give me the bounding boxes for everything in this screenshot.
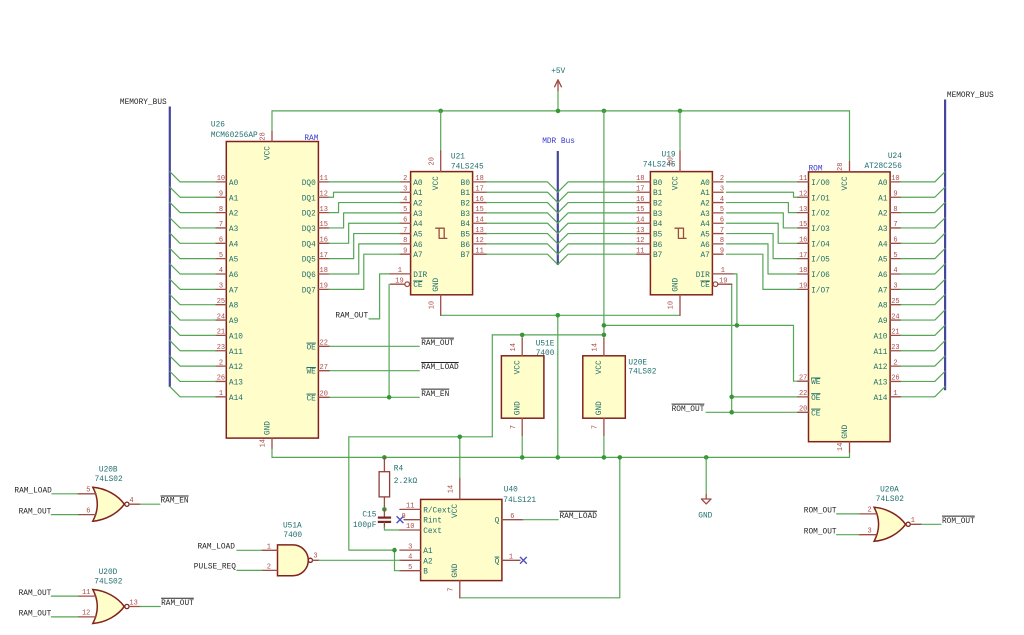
svg-text:17: 17 (636, 185, 644, 193)
svg-text:27: 27 (799, 374, 807, 382)
svg-text:A5: A5 (229, 257, 239, 265)
wire mid vertical GND link (557, 315, 559, 457)
net label RAM_LOAD (active low, U40 Q) (560, 510, 597, 512)
svg-text:21: 21 (891, 329, 899, 337)
svg-text:6: 6 (403, 216, 407, 224)
svg-text:16: 16 (636, 196, 644, 204)
wire bus entry A6 right (901, 264, 945, 274)
net label RAM_OUT (active low, U20D output) (161, 597, 194, 599)
svg-text:15: 15 (636, 206, 644, 214)
svg-text:DQ7: DQ7 (302, 287, 316, 295)
net label RAM_EN (active low, U20B output) (161, 495, 189, 497)
svg-text:13: 13 (320, 206, 328, 214)
svg-text:16: 16 (320, 237, 328, 245)
svg-text:23: 23 (217, 344, 225, 352)
wire bus entry A9 right (901, 310, 945, 320)
svg-text:VCC: VCC (515, 360, 523, 374)
wire VCC line lower (349, 436, 493, 438)
IC U24 AT28C256 (ROM) (798, 153, 902, 452)
wire U19 VCC to rail (679, 111, 681, 151)
wire RAM_OUT to U21 DIR (369, 274, 390, 319)
svg-text:14: 14 (636, 216, 644, 224)
wire U40 VCC drop (459, 437, 461, 479)
svg-text:A11: A11 (873, 349, 887, 357)
svg-text:1: 1 (721, 267, 725, 275)
svg-text:13: 13 (475, 227, 483, 235)
svg-text:RAM_OUT: RAM_OUT (19, 590, 52, 598)
wire bus entry A14 right (901, 387, 945, 397)
svg-text:12: 12 (636, 237, 644, 245)
gate U20B 74LS02 NOR (78, 467, 140, 522)
svg-text:VCC: VCC (452, 504, 460, 518)
svg-text:1: 1 (398, 267, 402, 275)
svg-text:13: 13 (799, 206, 807, 214)
wire U26 GND down (271, 448, 273, 457)
wire bus entry A5 right (901, 248, 945, 258)
svg-text:A2: A2 (878, 211, 888, 219)
wire bus entry A12 right (901, 356, 945, 366)
svg-text:A4: A4 (700, 221, 710, 229)
svg-text:DQ3: DQ3 (302, 226, 316, 234)
svg-text:ROM_OUT: ROM_OUT (804, 528, 837, 536)
svg-text:12: 12 (475, 237, 483, 245)
svg-text:A1: A1 (413, 190, 423, 198)
wire U26 WE to RAM_LOAD label (329, 370, 419, 372)
svg-text:14: 14 (260, 439, 268, 447)
svg-text:VCC: VCC (433, 176, 441, 190)
svg-text:20: 20 (320, 391, 328, 399)
svg-text:GND: GND (264, 421, 272, 435)
wire bus entry A0 left (170, 172, 216, 182)
wire bus entry A1 right (901, 187, 945, 197)
wire U19 A4 to U24 I/O4 (726, 223, 798, 243)
wire U21 CE to RAM_EN (388, 284, 390, 397)
svg-text:I/O1: I/O1 (811, 195, 830, 203)
svg-text:4: 4 (408, 554, 412, 562)
svg-text:14: 14 (475, 216, 483, 224)
svg-text:Q: Q (495, 558, 500, 566)
wire U24 OE branch (732, 396, 798, 398)
wire GND rail (272, 456, 850, 458)
svg-text:7400: 7400 (536, 350, 555, 358)
svg-text:OE: OE (306, 344, 316, 352)
svg-text:7: 7 (510, 425, 518, 429)
svg-text:12: 12 (320, 190, 328, 198)
IC U51E 7400 (power) (501, 339, 554, 436)
svg-text:DQ0: DQ0 (302, 180, 316, 188)
junction RAM_EN / U21 CE riser (387, 395, 392, 400)
wire bus entry A10 right (901, 325, 945, 335)
wire U40 A1 link (395, 550, 400, 571)
svg-text:74LS02: 74LS02 (628, 369, 656, 377)
svg-text:GND: GND (698, 512, 712, 520)
svg-text:DIR: DIR (413, 272, 427, 280)
svg-text:A1: A1 (700, 190, 710, 198)
svg-text:U26: U26 (211, 122, 225, 130)
svg-text:1: 1 (893, 390, 897, 398)
wire U19 B4 to MDR bus (558, 223, 637, 233)
svg-text:B0: B0 (461, 180, 471, 188)
wire +5V rail (272, 110, 850, 112)
IC U20E 74LS02 (power) (583, 339, 657, 436)
svg-text:DQ4: DQ4 (302, 241, 316, 249)
svg-text:11: 11 (82, 589, 90, 597)
wire U21 B3 to MDR bus (487, 213, 558, 223)
wire bus entry A6 left (170, 264, 216, 274)
wire DQ6 to U21 A6 (329, 244, 400, 274)
svg-text:9: 9 (893, 190, 897, 198)
wire U19 B6 to MDR bus (558, 244, 637, 254)
svg-text:A11: A11 (229, 349, 243, 357)
wire bus entry A13 left (170, 371, 216, 381)
svg-text:5: 5 (720, 206, 724, 214)
svg-text:12: 12 (799, 190, 807, 198)
junction ROM_OUT / OE (729, 395, 734, 400)
svg-text:MEMORY_BUS: MEMORY_BUS (947, 92, 994, 100)
ground symbol GND (698, 457, 712, 520)
svg-text:GND: GND (596, 401, 604, 415)
svg-text:RAM_EN: RAM_EN (161, 498, 189, 506)
svg-text:MCM60256AP: MCM60256AP (211, 132, 258, 140)
svg-text:4: 4 (403, 196, 407, 204)
svg-text:DIR: DIR (696, 272, 710, 280)
svg-text:16: 16 (475, 196, 483, 204)
wire U26 OE to RAM_OUT label (329, 345, 419, 347)
wire VCC line left drop to U40 A1 (349, 437, 395, 550)
net label RAM_OUT (active low, U26 OE) (421, 337, 454, 339)
junction VCC line / U51E VCC (520, 333, 525, 338)
junction VCC line / U40 VCC (458, 435, 463, 440)
svg-text:DQ1: DQ1 (302, 195, 316, 203)
svg-text:B6: B6 (461, 242, 471, 250)
gate U20D 74LS02 NOR (78, 569, 140, 624)
wire bus entry A11 right (901, 341, 945, 351)
wire U19 A0 to U24 I/O0 (726, 181, 798, 183)
IC U19 74LS245 (636, 151, 733, 315)
svg-text:2: 2 (893, 359, 897, 367)
svg-text:R/Cext: R/Cext (423, 507, 451, 515)
svg-text:WE: WE (306, 369, 316, 377)
svg-text:A1: A1 (423, 548, 433, 556)
svg-text:8: 8 (219, 206, 223, 214)
svg-text:6: 6 (720, 216, 724, 224)
svg-text:B1: B1 (461, 190, 471, 198)
svg-text:6: 6 (219, 237, 223, 245)
svg-text:A6: A6 (229, 272, 239, 280)
svg-text:B3: B3 (461, 211, 471, 219)
svg-text:18: 18 (799, 267, 807, 275)
wire VCC line upper (492, 334, 604, 336)
svg-text:9: 9 (720, 247, 724, 255)
svg-text:1: 1 (267, 543, 271, 551)
svg-text:RAM_EN: RAM_EN (421, 391, 449, 399)
svg-text:B0: B0 (653, 180, 663, 188)
svg-text:74LS121: 74LS121 (503, 497, 536, 505)
svg-text:17: 17 (799, 252, 807, 260)
wire U19 DIR down (733, 274, 737, 326)
svg-text:U51A: U51A (283, 522, 302, 530)
svg-text:B7: B7 (461, 252, 471, 260)
svg-text:15: 15 (799, 221, 807, 229)
wire U26 VCC to rail (271, 111, 273, 131)
svg-text:13: 13 (129, 599, 137, 607)
svg-text:23: 23 (891, 344, 899, 352)
svg-text:RAM_OUT: RAM_OUT (19, 611, 52, 619)
svg-text:10: 10 (217, 175, 225, 183)
svg-text:19: 19 (395, 277, 403, 285)
svg-text:I/O2: I/O2 (811, 211, 830, 219)
wire U19 B1 to MDR bus (558, 192, 637, 202)
wire bus entry A0 right (901, 172, 945, 182)
svg-text:A12: A12 (873, 364, 887, 372)
svg-text:A14: A14 (873, 395, 887, 403)
gate U20A 74LS02 NOR (859, 487, 921, 542)
net label ROM_OUT (active low, U20A output) (942, 515, 975, 517)
junction U19 DIR / WE wire (735, 323, 740, 328)
svg-text:A4: A4 (878, 241, 888, 249)
svg-text:14: 14 (592, 343, 600, 351)
svg-text:10: 10 (428, 301, 436, 309)
svg-text:74LS02: 74LS02 (95, 476, 123, 484)
wire bus entry A8 right (901, 295, 945, 305)
svg-text:22: 22 (320, 340, 328, 348)
svg-text:4: 4 (720, 196, 724, 204)
svg-text:I/O7: I/O7 (811, 287, 830, 295)
power symbol +5V (551, 68, 565, 111)
svg-text:I/O4: I/O4 (811, 241, 830, 249)
junction GND rail / GND symbol (704, 455, 709, 460)
wire U26 CE to RAM_EN label (329, 396, 419, 398)
svg-text:GND: GND (433, 277, 441, 291)
junction mid vertical / WE wire (602, 323, 607, 328)
wire bus entry A4 left (170, 233, 216, 243)
wire U19 A1 to U24 I/O1 (726, 192, 798, 197)
wire U40 GND return (460, 457, 620, 597)
wire U19 B5 to MDR bus (558, 234, 637, 244)
wire DQ4 to U21 A4 (329, 223, 400, 243)
svg-text:A8: A8 (878, 303, 888, 311)
svg-text:11: 11 (636, 247, 644, 255)
svg-text:5: 5 (219, 252, 223, 260)
svg-text:U20B: U20B (99, 467, 118, 475)
wire VCC line right riser (491, 335, 493, 437)
wire U21 B0 to MDR bus (487, 182, 558, 192)
svg-text:U20D: U20D (99, 569, 118, 577)
svg-text:A4: A4 (413, 221, 423, 229)
wire bus entry A8 left (170, 295, 216, 305)
junction GND rail / U20E GND (602, 455, 607, 460)
svg-text:A1: A1 (229, 195, 239, 203)
svg-text:RAM_LOAD: RAM_LOAD (14, 488, 52, 496)
svg-text:A6: A6 (878, 272, 888, 280)
svg-text:DQ5: DQ5 (302, 257, 316, 265)
svg-text:7: 7 (403, 227, 407, 235)
svg-text:74LS02: 74LS02 (94, 578, 122, 586)
svg-text:WE: WE (811, 379, 821, 387)
svg-text:2: 2 (267, 563, 271, 571)
svg-text:17: 17 (320, 252, 328, 260)
svg-text:U51E: U51E (536, 341, 555, 349)
svg-text:ROM_OUT: ROM_OUT (804, 508, 837, 516)
wire U19 A7 to U24 I/O7 (726, 254, 798, 289)
svg-text:A3: A3 (878, 226, 888, 234)
svg-text:VCC: VCC (596, 360, 604, 374)
net label RAM_EN (active low, U26 CE) (421, 388, 449, 390)
svg-text:B7: B7 (653, 252, 663, 260)
junction VCC line / U20E VCC / +5V vertical (602, 333, 607, 338)
svg-text:11: 11 (475, 247, 483, 255)
wire U19 B2 to MDR bus (558, 203, 637, 213)
wire ROM_OUT to U24 CE (706, 411, 798, 413)
svg-text:B5: B5 (461, 232, 471, 240)
wire U19 A6 to U24 I/O6 (726, 244, 798, 274)
svg-text:DQ2: DQ2 (302, 211, 316, 219)
svg-text:1: 1 (219, 390, 223, 398)
wire U21 VCC to rail (440, 111, 442, 151)
svg-text:RAM_LOAD: RAM_LOAD (198, 544, 236, 552)
svg-text:ROM: ROM (809, 165, 823, 173)
svg-text:7: 7 (720, 227, 724, 235)
svg-text:19: 19 (719, 277, 727, 285)
svg-text:A13: A13 (873, 379, 887, 387)
svg-text:6: 6 (510, 513, 514, 521)
svg-text:A3: A3 (700, 211, 710, 219)
wire mid vertical +5V to VCC line (603, 111, 605, 335)
svg-text:GND: GND (842, 424, 850, 438)
svg-text:Q: Q (495, 518, 500, 526)
wire bus entry A9 left (170, 310, 216, 320)
svg-text:A0: A0 (229, 180, 239, 188)
svg-text:18: 18 (475, 175, 483, 183)
wire U21 B1 to MDR bus (487, 192, 558, 202)
wire bus entry A4 right (901, 233, 945, 243)
svg-text:A4: A4 (229, 241, 239, 249)
wire PULSE_REQ to U51A pin 2 (237, 569, 262, 571)
svg-text:A2: A2 (700, 201, 710, 209)
junction R4 / C15 / R-Cext (382, 507, 387, 512)
wire bus entry A2 left (170, 202, 216, 212)
IC U26 MCM60256AP (RAM) (211, 122, 329, 449)
wire bus entry A13 right (901, 371, 945, 381)
wire bus entry A14 left (170, 387, 216, 397)
svg-text:A2: A2 (229, 211, 239, 219)
svg-text:26: 26 (217, 375, 225, 383)
wire bus entry A3 right (901, 218, 945, 228)
svg-text:MEMORY_BUS: MEMORY_BUS (120, 99, 167, 107)
svg-text:2: 2 (720, 175, 724, 183)
svg-text:GND: GND (452, 563, 460, 577)
svg-text:2: 2 (219, 359, 223, 367)
svg-text:8: 8 (720, 237, 724, 245)
svg-text:C15: C15 (362, 512, 376, 520)
svg-text:10: 10 (406, 523, 414, 531)
svg-text:A0: A0 (700, 180, 710, 188)
wire U21 B2 to MDR bus (487, 203, 558, 213)
svg-text:VCC: VCC (672, 176, 680, 190)
svg-text:A3: A3 (229, 226, 239, 234)
svg-text:A10: A10 (873, 333, 887, 341)
junction U40 A1 (392, 548, 397, 553)
svg-text:13: 13 (636, 227, 644, 235)
svg-text:A0: A0 (878, 180, 888, 188)
svg-text:RAM_OUT: RAM_OUT (19, 508, 52, 516)
svg-text:18: 18 (320, 267, 328, 275)
svg-text:8: 8 (893, 206, 897, 214)
wire bus entry A12 left (170, 356, 216, 366)
svg-text:1: 1 (509, 554, 513, 562)
svg-text:A14: A14 (229, 395, 243, 403)
wire ROM_OUT to U20A pin 2 (837, 513, 860, 515)
wire U21 GND to U19 GND (441, 314, 680, 316)
svg-text:5: 5 (893, 252, 897, 260)
svg-text:RAM: RAM (304, 135, 318, 143)
svg-text:A9: A9 (878, 318, 888, 326)
wire U19 A5 to U24 I/O5 (726, 234, 798, 259)
svg-text:11: 11 (406, 503, 414, 511)
resistor R4 2.2k (379, 457, 417, 509)
svg-text:15: 15 (475, 206, 483, 214)
wire ROM_OUT to U20A pin 3 (837, 534, 860, 536)
svg-text:ROM_OUT: ROM_OUT (942, 518, 975, 526)
svg-text:RAM_OUT: RAM_OUT (161, 600, 194, 608)
svg-text:3: 3 (313, 553, 317, 561)
svg-text:GND: GND (515, 401, 523, 415)
wire U51A output to U40 A2 (319, 559, 400, 561)
svg-text:3: 3 (403, 185, 407, 193)
svg-text:A3: A3 (413, 211, 423, 219)
svg-text:6: 6 (893, 237, 897, 245)
wire DQ3 to U21 A3 (329, 213, 400, 228)
svg-text:B3: B3 (653, 211, 663, 219)
svg-text:18: 18 (636, 175, 644, 183)
svg-text:25: 25 (891, 298, 899, 306)
svg-text:CE: CE (700, 282, 710, 290)
svg-text:A8: A8 (229, 303, 239, 311)
bus MDR (557, 151, 559, 265)
junction +5V rail / +5V symbol (556, 109, 561, 114)
wire RAM_OUT to U20D pin 11 (51, 595, 78, 597)
svg-text:A6: A6 (413, 242, 423, 250)
wire +5V to U24 WE (604, 325, 798, 381)
svg-text:20: 20 (799, 406, 807, 414)
junction +5V rail / mid vertical (602, 109, 607, 114)
wire U20B output to RAM_EN label (140, 503, 160, 505)
wire bus entry A7 right (901, 279, 945, 289)
svg-text:B5: B5 (653, 232, 663, 240)
svg-text:14: 14 (510, 343, 518, 351)
svg-text:3: 3 (219, 283, 223, 291)
svg-text:OE: OE (811, 395, 821, 403)
svg-text:74LS02: 74LS02 (876, 496, 904, 504)
svg-text:5: 5 (86, 487, 90, 495)
svg-text:A9: A9 (229, 318, 239, 326)
wire U20D output to RAM_OUT label (140, 606, 160, 608)
svg-text:VCC: VCC (842, 176, 850, 190)
svg-text:A2: A2 (413, 201, 423, 209)
wire U24 VCC to rail (849, 111, 851, 162)
wire DQ0 to U21 A0 (329, 181, 400, 183)
wire U24 GND down (849, 452, 851, 457)
svg-text:24: 24 (217, 313, 225, 321)
wire U21 B5 to MDR bus (487, 234, 558, 244)
svg-text:A7: A7 (413, 252, 423, 260)
svg-text:3: 3 (867, 528, 871, 536)
svg-text:25: 25 (217, 298, 225, 306)
svg-text:CE: CE (413, 282, 423, 290)
svg-text:Cext: Cext (423, 528, 442, 536)
svg-text:PULSE_REQ: PULSE_REQ (194, 564, 236, 572)
svg-text:10: 10 (891, 175, 899, 183)
